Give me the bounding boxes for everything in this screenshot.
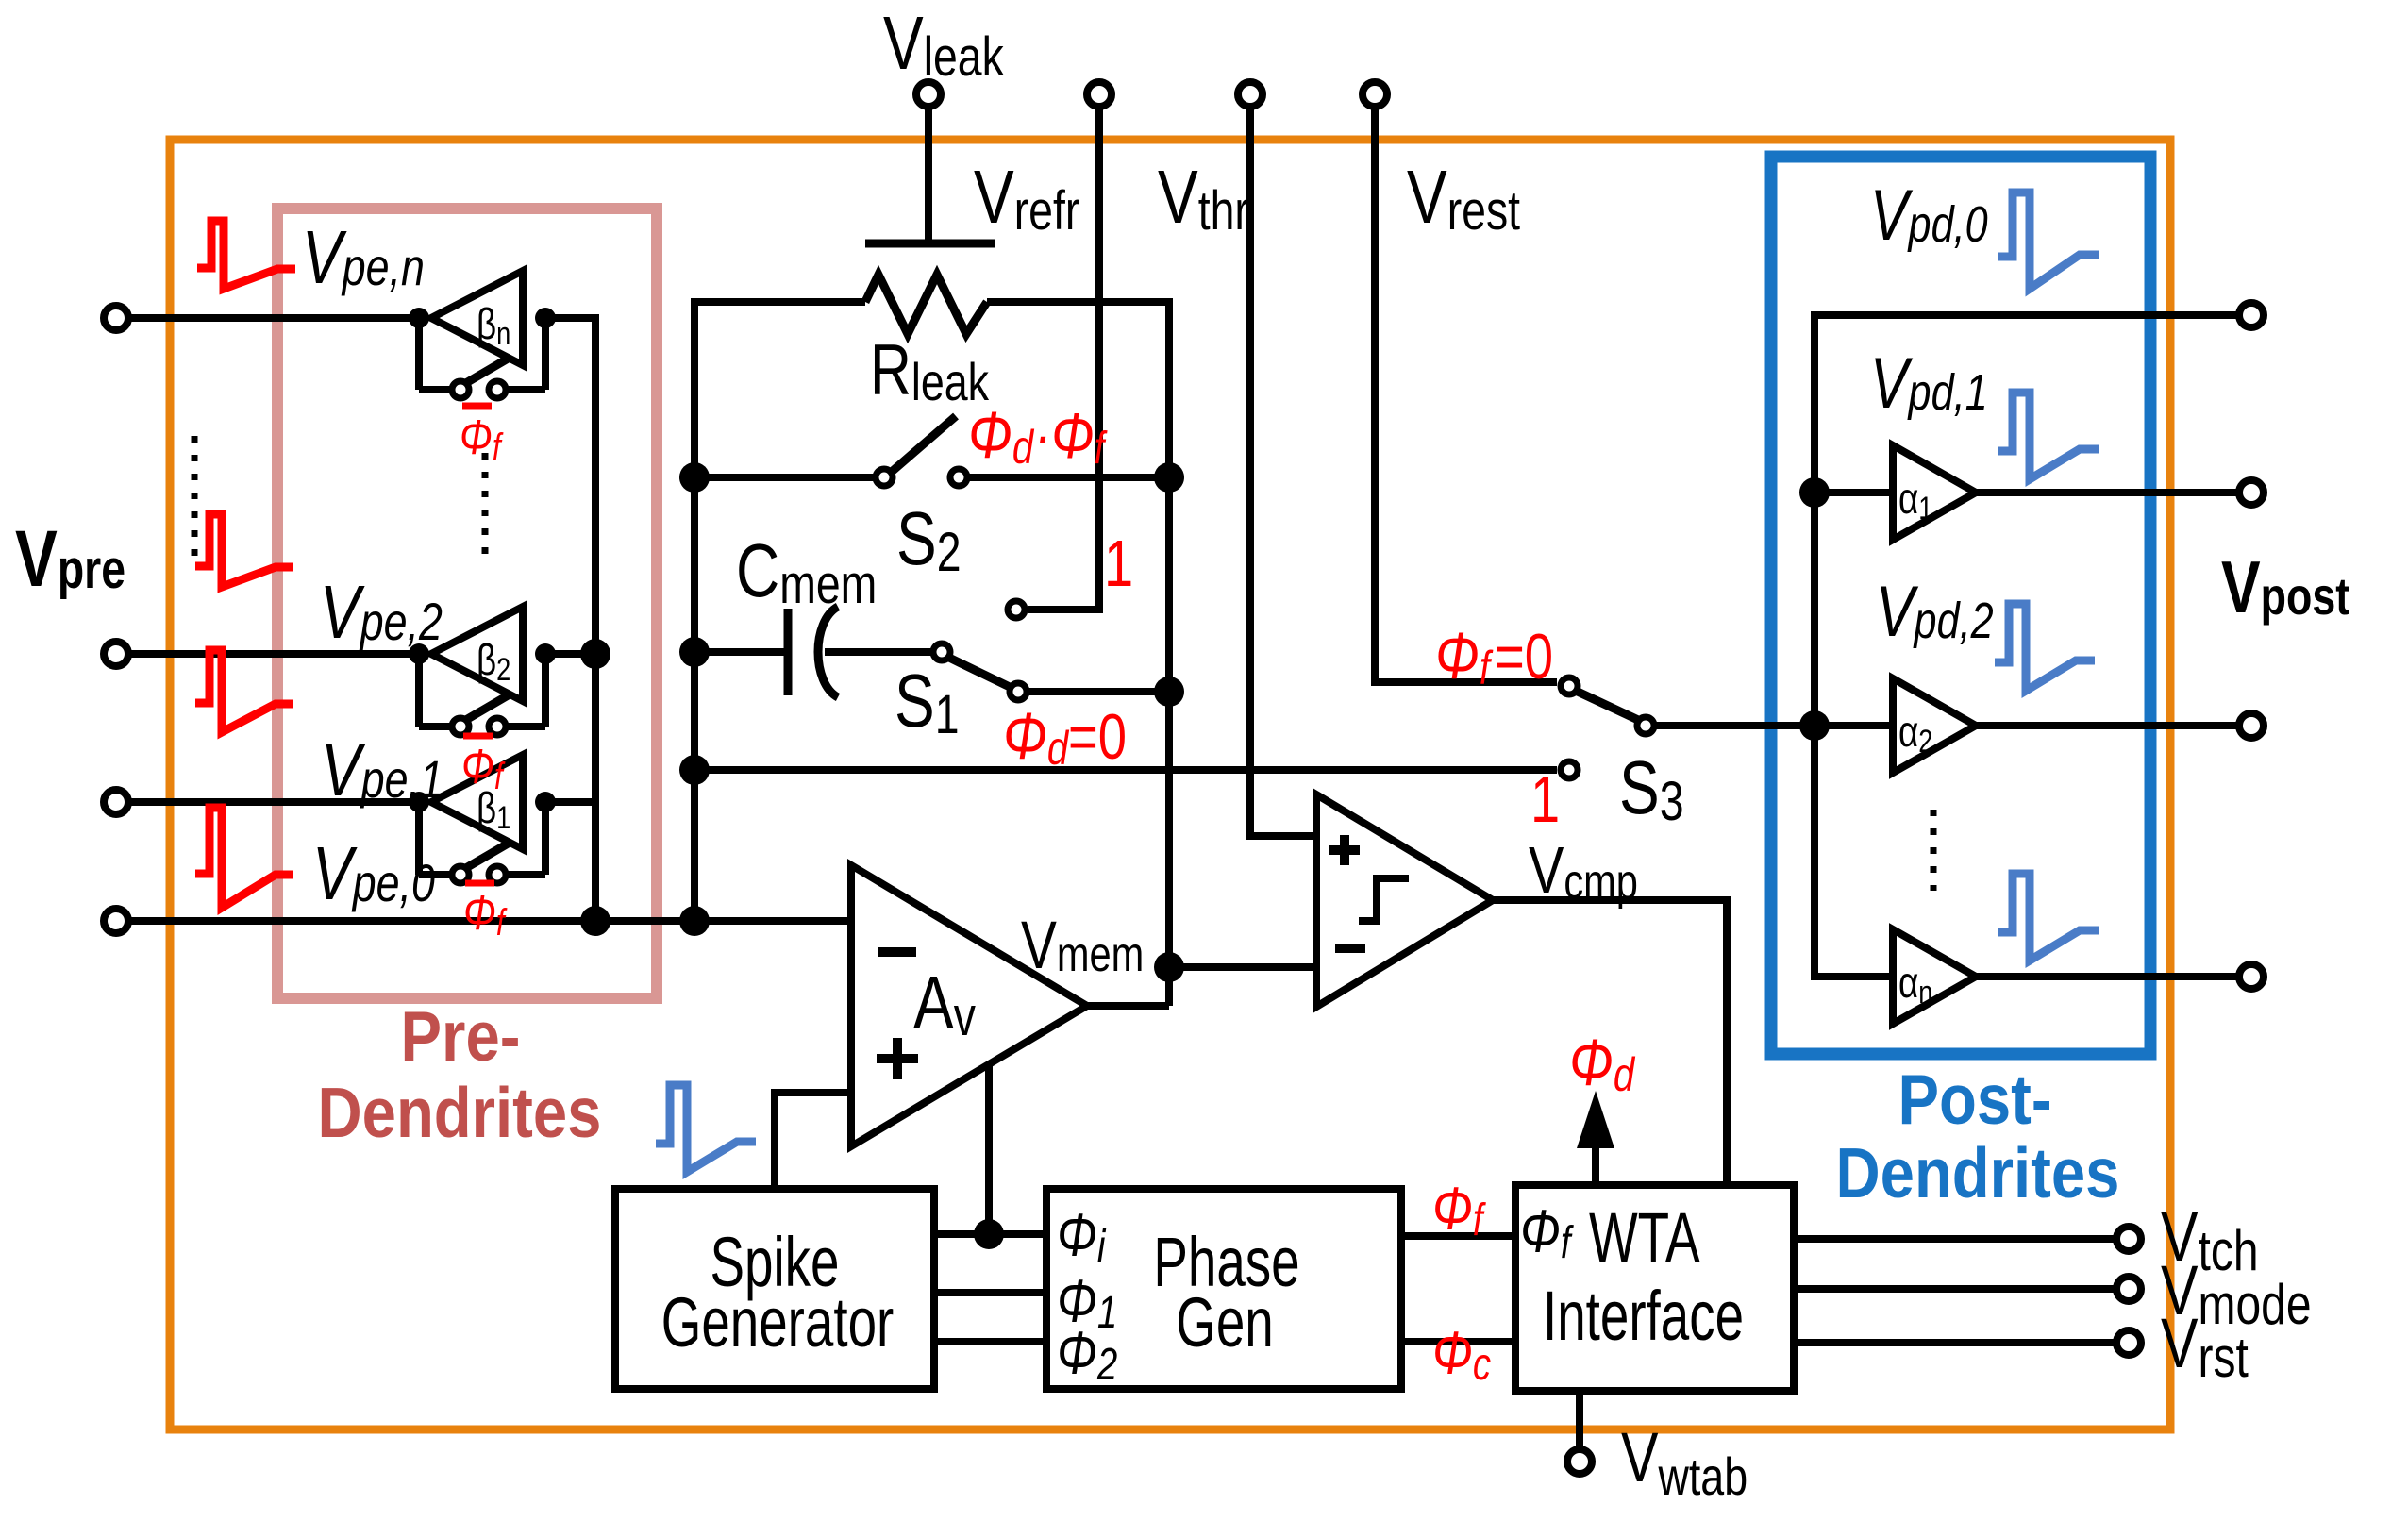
wire phi_1	[934, 1289, 1046, 1296]
terminal Vpd,0	[2239, 303, 2264, 327]
wire Vpd,0 output	[1893, 311, 2236, 319]
wire Vmode	[1794, 1285, 2116, 1293]
wire S2 right	[969, 474, 1169, 481]
svg-text:Gen: Gen	[1176, 1283, 1273, 1362]
switch S2 throw contact	[950, 469, 967, 486]
label phi_f-bar for beta_2	[463, 733, 493, 740]
wire phi_d arrow	[1592, 1146, 1599, 1185]
switch phi_f beta_1 left contact	[452, 866, 469, 883]
switch phi_f beta_2 right contact	[489, 718, 506, 735]
block WTA Interface	[1515, 1185, 1794, 1391]
svg-text:1: 1	[1104, 527, 1133, 600]
terminal Vpd,2 output	[2239, 713, 2264, 738]
switch S1 lever	[949, 658, 1010, 687]
switch phi_f beta_1 right contact	[489, 866, 506, 883]
block Phase Gen	[1046, 1189, 1401, 1389]
wire Av output	[1087, 1002, 1169, 1010]
node membrane-S2	[679, 462, 710, 493]
node Vmem	[1154, 952, 1184, 982]
red spike waveform input dots row	[195, 514, 293, 587]
wire Vwtab	[1576, 1391, 1583, 1447]
wire beta_2 output join	[545, 650, 595, 658]
switch S2 pole contact	[876, 469, 893, 486]
node pre bus Vpe0	[580, 906, 610, 936]
wire Vrst	[1794, 1339, 2116, 1346]
terminal Vpd,1 output	[2239, 480, 2264, 505]
svg-text:Dendrites: Dendrites	[318, 1073, 602, 1152]
wire alpha1 input	[1814, 489, 1893, 496]
terminal Vpre input n	[104, 306, 128, 330]
terminal Vpre input 1	[104, 790, 128, 814]
amplifier alpha_1	[1893, 445, 1976, 540]
red spike waveform input 1	[195, 808, 293, 908]
blue spike waveform pdn	[1998, 874, 2099, 961]
ellipsis post-dendrites	[1931, 810, 1937, 891]
outer neuron cell boundary box	[170, 140, 2170, 1429]
node beta_1 output	[535, 792, 556, 812]
switch phi_f beta_2 lever	[464, 694, 510, 721]
terminal Vmode	[2116, 1277, 2141, 1301]
op-amp Av plus sign	[877, 1054, 918, 1063]
wire Rleak left	[694, 298, 865, 306]
switch S3 pole contact	[1637, 717, 1654, 734]
switch S3 contact phi_f=0	[1561, 677, 1578, 694]
wire Vthr vertical	[1250, 107, 1313, 836]
wire Vmem to comparator minus	[1169, 963, 1313, 971]
node feedback-S1	[1154, 677, 1184, 707]
wire Vrest vertical	[1375, 107, 1557, 682]
wire comparator output Vcmp	[1493, 900, 1727, 1185]
feedback wires beta_n	[415, 318, 423, 390]
svg-text:=0: =0	[1068, 701, 1127, 773]
node membrane-Cmem	[679, 637, 710, 667]
wire phi_c	[1401, 1338, 1515, 1345]
terminal Vleak	[916, 82, 941, 107]
amplifier beta_2	[431, 607, 523, 701]
wire Vtch	[1794, 1235, 2116, 1243]
svg-text:WTA: WTA	[1589, 1198, 1700, 1277]
node beta_2 input	[409, 643, 429, 664]
wire post-dendrite bus	[1814, 315, 1893, 977]
wire Cmem right to S1 pole	[825, 648, 932, 656]
amplifier beta_1	[431, 755, 523, 849]
label phi_f-bar for beta_n	[462, 403, 492, 409]
svg-text:Generator: Generator	[661, 1283, 894, 1362]
wire membrane to S3 alt contact	[694, 766, 1557, 774]
svg-text:Dendrites: Dendrites	[1836, 1133, 2120, 1212]
ellipsis left inputs	[192, 436, 198, 560]
red spike waveform input 2	[195, 650, 293, 732]
label phi_f-bar for beta_1	[465, 880, 494, 887]
capacitor Cmem left plate	[784, 609, 793, 695]
switch S1 throw contact	[1010, 683, 1027, 700]
wire Vleak stem	[925, 107, 932, 240]
terminal Vpd,n output	[2239, 964, 2264, 989]
node beta_2 output	[535, 643, 556, 664]
switch phi_f beta_1 lever	[464, 843, 510, 869]
switch S3 lever	[1578, 692, 1638, 720]
wire Vpre,0 membrane line	[128, 917, 851, 925]
wire alpha_n output	[1976, 973, 2236, 980]
feedback wires beta_2	[415, 654, 423, 727]
wire Vpre,1	[128, 798, 425, 806]
comparator	[1316, 794, 1493, 1007]
terminal Vrst	[2116, 1330, 2141, 1355]
wire Av plus input	[775, 1093, 851, 1189]
wire Vpre,2	[128, 650, 425, 658]
wire S3 pole to post-dendrite bus	[1656, 722, 1893, 729]
wire S1 right	[1028, 688, 1169, 695]
wire pre-dendrite output bus	[545, 318, 595, 921]
op-amp Av minus sign	[878, 947, 916, 957]
amplifier alpha_n	[1893, 929, 1976, 1024]
wire phi_2	[934, 1338, 1046, 1345]
wire feedback bus vertical	[1165, 477, 1173, 1006]
blue spike waveform pd2	[1995, 604, 2095, 691]
pre-dendrites group box	[277, 209, 657, 998]
node membrane-S3 line	[679, 755, 710, 785]
terminal Vwtab	[1567, 1449, 1592, 1474]
Vleak supply plate bar	[865, 240, 995, 248]
node membrane-preinput	[679, 906, 710, 936]
switch phi_f beta_2 left contact	[452, 718, 469, 735]
red spike waveform input n	[197, 221, 295, 289]
blue spike waveform pd1	[1998, 393, 2099, 479]
terminal Vrest	[1363, 82, 1387, 107]
wire Vpre,n	[128, 314, 425, 322]
wire Rleak right to feedback bus	[987, 302, 1169, 477]
svg-text:Post-: Post-	[1898, 1060, 2051, 1139]
comparator minus sign	[1335, 944, 1365, 953]
ellipsis pre-dendrites	[482, 453, 489, 566]
terminal Vtch	[2116, 1227, 2141, 1251]
svg-text:=0: =0	[1495, 621, 1553, 693]
terminal Vthr	[1238, 82, 1263, 107]
wire spike generator to Av plus	[771, 1185, 778, 1191]
svg-text:Pre-: Pre-	[401, 996, 521, 1076]
node feedback-S2	[1154, 462, 1184, 493]
node pre bus Vpe2	[580, 639, 610, 669]
terminal Vrefr	[1087, 82, 1112, 107]
switch phi_f beta_n lever	[464, 358, 510, 384]
switch S2 alt contact 1 (Vrefr)	[1008, 601, 1025, 618]
block Spike Generator	[615, 1189, 934, 1389]
terminal Vpre input 0	[104, 909, 128, 933]
resistor Rleak	[865, 275, 987, 334]
wire membrane bus vertical	[691, 298, 698, 921]
wire alpha2 output	[1976, 722, 2236, 729]
wire Cmem left	[694, 648, 786, 656]
capacitor Cmem right plate	[818, 607, 838, 697]
switch S2 lever	[893, 416, 956, 471]
svg-text:1: 1	[1530, 763, 1560, 836]
feedback wires beta_1	[415, 802, 423, 875]
wire alpha1 output	[1976, 489, 2236, 496]
op-amp Av	[851, 865, 1087, 1146]
wire phi_f	[1401, 1232, 1515, 1240]
wire Vrefr vertical and to S2 contact 1	[1028, 107, 1099, 610]
wire S2 left	[694, 474, 874, 481]
terminal Vpre input 2	[104, 642, 128, 666]
comparator plus sign	[1329, 845, 1360, 855]
blue spike waveform spike generator	[656, 1085, 756, 1172]
wire phi_i up to Av	[985, 1065, 993, 1234]
post-dendrites group box	[1771, 157, 2150, 1054]
node beta_n output	[535, 308, 556, 328]
wire beta_1 output join	[545, 798, 595, 806]
switch phi_f beta_n right contact	[489, 381, 506, 398]
switch phi_f beta_n left contact	[452, 381, 469, 398]
svg-text:Interface: Interface	[1543, 1277, 1744, 1355]
switch S1 pole contact	[933, 643, 950, 660]
wire phi_i	[934, 1230, 1046, 1238]
comparator hysteresis symbol	[1359, 878, 1409, 921]
node phi_i to op-amp	[974, 1219, 1004, 1249]
blue spike waveform pd0	[1998, 192, 2099, 289]
amplifier alpha_2	[1893, 678, 1976, 773]
node beta_n input	[409, 308, 429, 328]
node post bus alpha1	[1799, 477, 1830, 508]
node beta_1 input	[409, 792, 429, 812]
amplifier beta_n	[431, 271, 523, 365]
node post bus main	[1799, 710, 1830, 741]
switch S3 alt contact 1	[1561, 761, 1578, 778]
